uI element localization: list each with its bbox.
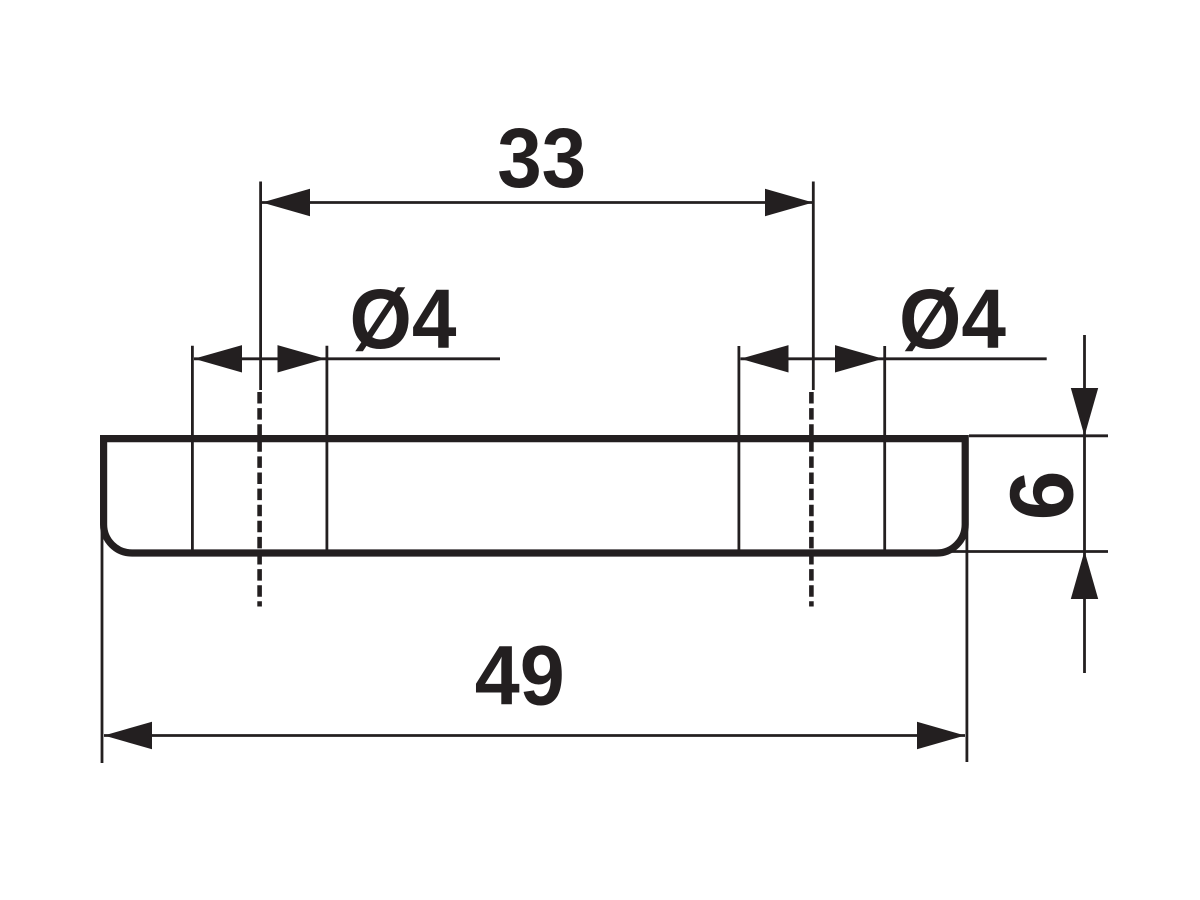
arrowhead 49 right — [917, 722, 965, 749]
dimension line 49 — [104, 734, 965, 737]
svg-text:6: 6 — [993, 470, 1093, 520]
dimension line 33 — [262, 201, 813, 204]
extension line 6 bottom — [948, 550, 1108, 553]
centerline hole1 — [257, 392, 262, 607]
svg-text:49: 49 — [475, 629, 565, 723]
part outline (washer profile) — [104, 439, 966, 553]
arrowhead hole1 left — [194, 345, 242, 372]
extension line 49 left — [101, 528, 104, 763]
dimension line + leader hole1 — [194, 357, 500, 360]
dimension line + leader hole2 — [741, 357, 1047, 360]
arrowhead 6 down — [1071, 388, 1098, 436]
arrowhead hole2 left — [741, 345, 789, 372]
arrowhead 6 up — [1071, 551, 1098, 599]
svg-text:33: 33 — [497, 111, 586, 205]
svg-text:Ø4: Ø4 — [350, 272, 457, 366]
centerline hole2 — [809, 392, 814, 607]
arrowhead hole2 right — [835, 345, 883, 372]
extension line hole2 right edge — [883, 346, 886, 556]
extension line 33 right — [812, 182, 815, 391]
extension line 6 top — [969, 434, 1108, 437]
arrowhead 49 left — [104, 722, 152, 749]
extension line hole1 right edge — [325, 346, 328, 550]
arrowhead 33 right — [765, 189, 813, 216]
extension line 49 right — [966, 525, 969, 762]
dimension line 6 — [1083, 335, 1086, 673]
extension line hole1 left edge — [191, 346, 194, 550]
arrowhead hole1 right — [278, 345, 326, 372]
extension line hole2 left edge — [738, 346, 741, 556]
arrowhead 33 left — [262, 189, 310, 216]
svg-text:Ø4: Ø4 — [899, 272, 1006, 366]
extension line 33 left — [259, 182, 262, 391]
